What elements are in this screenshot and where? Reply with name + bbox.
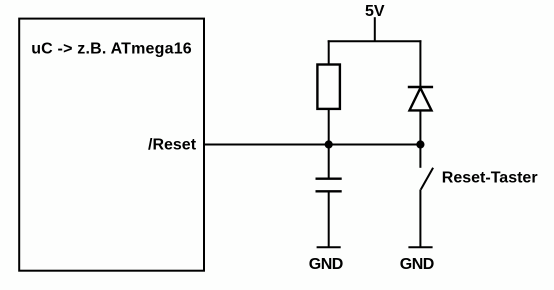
label Reset-Taster — [442, 170, 538, 187]
wire switch to ground — [419, 190, 421, 248]
switch S1 lever — [421, 168, 433, 190]
wire diode anode to node — [419, 110, 421, 144]
wire top rail — [328, 40, 422, 42]
ground symbol right — [408, 246, 432, 248]
wire node to capacitor — [328, 145, 330, 179]
svg-text:Reset-Taster: Reset-Taster — [442, 170, 538, 187]
wire 5V to diode cathode — [419, 40, 421, 87]
wire 5V stub — [374, 17, 376, 41]
capacitor C1 bottom plate — [316, 190, 342, 192]
diode D1 cathode bar — [408, 86, 433, 88]
label 5V — [365, 3, 385, 20]
label uC -> z.B. ATmega16 — [31, 41, 192, 58]
resistor R1 — [317, 65, 340, 109]
svg-text:uC -> z.B. ATmega16: uC -> z.B. ATmega16 — [31, 41, 192, 58]
capacitor C1 top plate — [316, 177, 342, 179]
pin label /Reset — [148, 136, 197, 153]
ground symbol left — [317, 246, 341, 248]
wire /Reset net — [205, 144, 421, 146]
wire capacitor to ground — [328, 191, 330, 247]
microcontroller box U1 — [19, 19, 204, 271]
wire resistor to node — [328, 109, 330, 145]
switch S1 upper contact wire — [419, 145, 421, 168]
node junction dot at diode/switch — [416, 140, 424, 148]
label GND left — [309, 256, 343, 273]
svg-text:GND: GND — [309, 256, 343, 273]
diode D1 triangle — [410, 88, 432, 110]
wire 5V to resistor — [328, 40, 330, 64]
svg-text:/Reset: /Reset — [148, 136, 197, 153]
node junction dot at resistor/capacitor — [325, 140, 333, 148]
svg-text:GND: GND — [400, 256, 434, 273]
label GND right — [400, 256, 434, 273]
